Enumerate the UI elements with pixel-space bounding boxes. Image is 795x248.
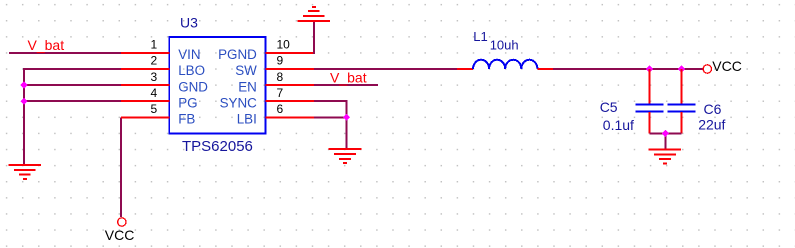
svg-text:1: 1 <box>151 38 158 52</box>
svg-text:C6: C6 <box>704 101 722 117</box>
svg-text:L1: L1 <box>473 29 487 44</box>
wire SYNC corner down to ground <box>346 100 348 149</box>
wire left bus vertical <box>23 68 25 165</box>
wire pin10 up to ground <box>313 21 315 54</box>
pin 8 EN <box>266 84 314 86</box>
svg-text:VCC: VCC <box>712 58 742 74</box>
pin 5 FB <box>121 116 169 118</box>
wire down to caps ground <box>664 133 666 149</box>
inductor L1 <box>457 68 473 70</box>
junction LBI-SYNC net <box>343 114 350 121</box>
wire inductor to VCC port <box>553 68 703 70</box>
power port VCC right <box>703 65 711 73</box>
ground caps <box>649 149 682 163</box>
pin 1 VIN <box>121 52 169 54</box>
pin 6 LBI <box>266 116 314 118</box>
svg-text:4: 4 <box>151 86 158 100</box>
pin 3 GND <box>121 84 169 86</box>
ground mid <box>329 149 362 163</box>
svg-text:LBI: LBI <box>237 112 257 127</box>
svg-text:C5: C5 <box>600 99 618 115</box>
svg-text:SYNC: SYNC <box>220 95 258 110</box>
wire EN stub <box>314 84 378 86</box>
svg-text:22uf: 22uf <box>698 117 725 133</box>
junction bus-pin4 <box>20 98 27 105</box>
svg-text:9: 9 <box>277 54 284 68</box>
wire caps bottom bar <box>650 132 682 134</box>
svg-text:SW: SW <box>235 63 257 78</box>
svg-text:V_bat: V_bat <box>28 37 65 53</box>
wire pin2 to bus <box>23 68 121 70</box>
capacitor C6 <box>680 69 682 104</box>
svg-text:2: 2 <box>151 54 158 68</box>
svg-text:LBO: LBO <box>178 63 205 78</box>
svg-text:7: 7 <box>277 86 284 100</box>
svg-text:TPS62056: TPS62056 <box>182 138 253 155</box>
svg-text:PGND: PGND <box>218 47 257 62</box>
svg-text:VIN: VIN <box>178 47 200 62</box>
svg-text:6: 6 <box>277 102 284 116</box>
junction C5 <box>646 65 653 72</box>
svg-text:U3: U3 <box>180 14 198 30</box>
junction bus-pin3 <box>20 81 27 88</box>
pin 4 PG <box>121 100 169 102</box>
wire SW to inductor <box>314 68 457 70</box>
svg-text:0.1uf: 0.1uf <box>603 117 634 133</box>
svg-text:EN: EN <box>238 79 257 94</box>
ground top <box>298 7 331 21</box>
pin 7 SYNC <box>266 100 314 102</box>
svg-text:PG: PG <box>178 95 197 110</box>
junction C6 <box>678 65 685 72</box>
svg-text:10uh: 10uh <box>490 37 519 52</box>
wire SYNC to corner <box>314 100 347 102</box>
IC U3 TPS62056 box <box>169 37 265 134</box>
svg-text:5: 5 <box>151 102 158 116</box>
svg-text:GND: GND <box>178 79 208 94</box>
pin 2 LBO <box>121 68 169 70</box>
svg-text:3: 3 <box>151 70 158 84</box>
svg-text:8: 8 <box>277 70 284 84</box>
svg-text:V_bat: V_bat <box>330 69 367 85</box>
pin 9 SW <box>266 68 314 70</box>
wire pin3 to bus <box>23 84 121 86</box>
wire FB down to VCC port <box>120 117 122 217</box>
svg-text:FB: FB <box>178 112 195 127</box>
wire LBI to junction <box>314 116 347 118</box>
wire V_bat to pin1 <box>9 52 121 54</box>
svg-text:10: 10 <box>277 38 291 52</box>
wire pin4 to bus <box>23 100 121 102</box>
junction caps bottom <box>662 130 669 137</box>
capacitor C5 <box>649 69 651 104</box>
pin 10 PGND <box>266 52 314 54</box>
power port VCC bottom <box>118 218 126 226</box>
ground left <box>9 165 42 179</box>
svg-text:VCC: VCC <box>105 227 135 243</box>
